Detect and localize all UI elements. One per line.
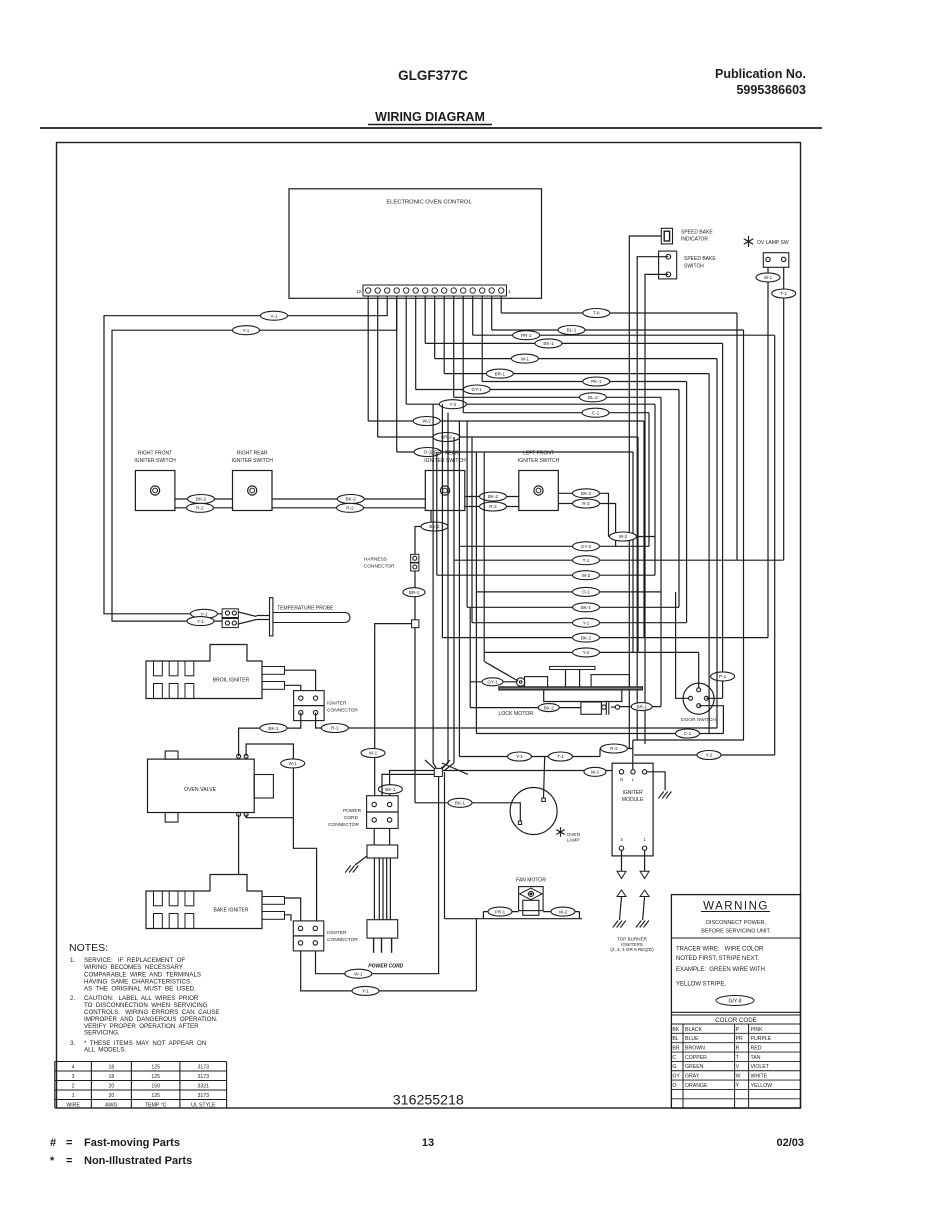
wire W-2 fan return xyxy=(543,907,579,916)
svg-text:W-1: W-1 xyxy=(369,751,378,756)
notes text block xyxy=(69,942,219,1054)
igniter module U2 box xyxy=(612,763,653,856)
svg-text:BK-1: BK-1 xyxy=(543,341,554,346)
svg-text:G/Y-8: G/Y-8 xyxy=(728,999,741,1005)
svg-text:GY-2: GY-2 xyxy=(581,544,592,549)
wire BK-1 horizontal run xyxy=(425,342,722,344)
oval label PR-1 xyxy=(513,331,540,340)
svg-text:EXAMPLE: GREEN WIRE WITH: EXAMPLE: GREEN WIRE WITH xyxy=(676,967,765,973)
oval label ladder BK-2 xyxy=(573,633,600,642)
svg-text:*: * xyxy=(50,1155,55,1167)
svg-text:COPPER: COPPER xyxy=(685,1055,707,1061)
svg-text:LEFT REAR: LEFT REAR xyxy=(431,451,459,457)
svg-text:#: # xyxy=(50,1137,56,1149)
wire BK power feed from junction xyxy=(390,771,435,796)
lock motor label xyxy=(498,711,533,717)
svg-text:C: C xyxy=(672,1055,676,1061)
svg-text:LOCK MOTOR: LOCK MOTOR xyxy=(498,711,533,717)
warning box xyxy=(671,895,800,1108)
wire W-1 horizontal run xyxy=(435,358,717,360)
svg-text:T-8: T-8 xyxy=(593,311,600,316)
wire speed bake indicator lead xyxy=(629,236,661,749)
wire W-2 stub xyxy=(609,532,656,541)
svg-text:Y-1: Y-1 xyxy=(197,619,204,624)
svg-text:BL: BL xyxy=(672,1036,678,1042)
wire PR-1 horizontal run xyxy=(473,334,775,336)
wire Y-1 J4 to power cord xyxy=(301,951,477,995)
oval label BR-1 xyxy=(486,369,513,378)
svg-text:02/03: 02/03 xyxy=(776,1137,804,1149)
svg-text:BK-2: BK-2 xyxy=(196,497,207,502)
wire Y-2 horizontal run xyxy=(406,403,655,405)
svg-text:BK: BK xyxy=(672,1027,679,1033)
junction node X1 xyxy=(425,760,450,777)
svg-text:AWG: AWG xyxy=(105,1103,117,1109)
left rear igniter switch S6 xyxy=(424,451,466,511)
wire W-1 oven lamp switch left leg xyxy=(756,267,780,637)
lock motor cam xyxy=(517,678,525,686)
part number xyxy=(393,1093,464,1109)
svg-text:3.: 3. xyxy=(70,1040,75,1047)
power cord connector J5 xyxy=(328,796,398,829)
svg-text:W: W xyxy=(736,1074,741,1080)
svg-text:316255218: 316255218 xyxy=(393,1093,464,1109)
svg-text:Y-1: Y-1 xyxy=(243,328,250,333)
svg-text:CONNECTOR: CONNECTOR xyxy=(328,822,359,828)
wire R-2 LF out xyxy=(558,499,615,546)
svg-text:BK-2: BK-2 xyxy=(346,497,357,502)
svg-text:125: 125 xyxy=(151,1093,160,1099)
title model number xyxy=(398,68,468,83)
svg-text:13: 13 xyxy=(422,1137,434,1149)
wire fan base left post xyxy=(482,912,484,919)
svg-text:BROWN: BROWN xyxy=(685,1046,705,1052)
wire ladder O-1 run xyxy=(476,591,661,593)
svg-text:UL STYLE: UL STYLE xyxy=(191,1103,216,1109)
wire ladder Y-2 run xyxy=(484,651,699,653)
svg-text:N: N xyxy=(620,777,623,782)
oval label T-1 lamp xyxy=(549,752,573,761)
oval label BR-1 harness xyxy=(403,588,425,597)
wire junction down to W-1 line xyxy=(438,777,440,974)
junction node square xyxy=(412,620,419,628)
svg-text:NOTES:: NOTES: xyxy=(69,942,108,954)
svg-text:4: 4 xyxy=(72,1065,75,1071)
svg-text:TRACER WIRE: WIRE COLOR: TRACER WIRE: WIRE COLOR xyxy=(676,947,764,953)
svg-text:W-1: W-1 xyxy=(289,761,298,766)
EOC connector strip P1 pins 1-15 xyxy=(356,285,511,296)
svg-text:CONTROLS. WIRING ERRORS CA: CONTROLS. WIRING ERRORS CAN CAUSE xyxy=(84,1009,219,1016)
svg-text:W-1: W-1 xyxy=(521,356,530,361)
svg-text:ALL MODELS.: ALL MODELS. xyxy=(84,1047,126,1054)
wire C-1 horizontal run xyxy=(463,412,649,414)
svg-text:GY-1: GY-1 xyxy=(487,680,498,685)
svg-text:T-1: T-1 xyxy=(583,558,590,563)
svg-text:18: 18 xyxy=(109,1074,115,1080)
svg-text:O-1: O-1 xyxy=(582,590,590,595)
svg-text:OVEN VALVE: OVEN VALVE xyxy=(184,787,217,793)
wire oven valve bottom right staircase xyxy=(246,814,293,817)
svg-text:W-2: W-2 xyxy=(559,909,568,914)
wire trunk Y-2 down xyxy=(654,404,656,575)
svg-text:BL-1: BL-1 xyxy=(567,328,577,333)
lock motor base plate xyxy=(499,687,643,690)
svg-text:3173: 3173 xyxy=(197,1093,209,1099)
svg-text:18: 18 xyxy=(109,1065,115,1071)
right rear igniter switch S5 xyxy=(232,451,274,511)
wire BK-2 RR to LR xyxy=(272,495,425,504)
svg-text:HARNESS: HARNESS xyxy=(364,557,387,563)
wire trunk P-1 down to door switch xyxy=(706,343,722,698)
svg-text:IGNITER: IGNITER xyxy=(622,790,643,796)
svg-text:POWER: POWER xyxy=(343,808,362,814)
wire module output 1 xyxy=(640,850,649,878)
svg-text:BK-2: BK-2 xyxy=(429,524,440,529)
svg-text:R-2: R-2 xyxy=(196,506,204,511)
svg-text:W-2: W-2 xyxy=(423,419,432,424)
svg-text:O: O xyxy=(672,1083,676,1089)
right front igniter switch S4 xyxy=(134,451,176,511)
svg-text:CONNECTOR: CONNECTOR xyxy=(364,564,395,570)
oval label BK-1 lamp xyxy=(448,798,472,807)
svg-text:BR-1: BR-1 xyxy=(409,590,420,595)
svg-text:CORD: CORD xyxy=(344,815,359,821)
wire broil prong lower to J3 xyxy=(285,685,301,690)
wires power connector to strain relief xyxy=(374,828,389,845)
wire BR-1 latch to trunk xyxy=(620,703,661,711)
svg-text:CAUTION: LABEL ALL WIRES: CAUTION: LABEL ALL WIRES PRIOR xyxy=(84,995,199,1002)
svg-text:BK-1: BK-1 xyxy=(385,787,396,792)
wire BL-2 horizontal run xyxy=(454,396,661,398)
wire fan base to Y-1 vertical xyxy=(475,919,477,991)
svg-text:OV LAMP SW: OV LAMP SW xyxy=(757,240,789,246)
wire speed bake switch lead 2 xyxy=(645,274,668,744)
wire BK-2 LR bottom to harness connector xyxy=(415,511,448,555)
wire fan base right post xyxy=(578,912,580,919)
oval label BR-2 xyxy=(433,433,460,442)
svg-text:Y-2: Y-2 xyxy=(449,402,456,407)
power cord plug body xyxy=(367,920,398,938)
svg-text:AS THE ORIGINAL MUST BE U: AS THE ORIGINAL MUST BE USED. xyxy=(84,986,196,993)
svg-text:ELECTRONIC OVEN CONTROL: ELECTRONIC OVEN CONTROL xyxy=(386,200,472,206)
wires ladder staircase verticals xyxy=(437,404,484,763)
svg-text:WIRING BECOMES NECESSARY: WIRING BECOMES NECESSARY xyxy=(84,964,183,971)
footer page number xyxy=(422,1137,434,1149)
wire T-1 oven lamp switch right leg xyxy=(772,267,796,560)
footer fast-moving parts xyxy=(50,1137,180,1149)
oval label BL-2 xyxy=(579,393,606,402)
wire broil prong upper to J3 xyxy=(285,670,316,690)
svg-text:PINK: PINK xyxy=(751,1027,764,1033)
svg-text:PURPLE: PURPLE xyxy=(751,1036,772,1042)
svg-text:V-1: V-1 xyxy=(201,612,208,617)
wire lamp left lead xyxy=(415,803,520,821)
svg-text:Y-2: Y-2 xyxy=(706,753,713,758)
wire trunk O-1 down xyxy=(632,452,634,652)
wire BR-1 horizontal run xyxy=(444,373,709,375)
wire BK-2 LF out xyxy=(558,489,608,537)
svg-text:RIGHT REAR: RIGHT REAR xyxy=(237,451,268,457)
svg-text:R-2: R-2 xyxy=(610,746,618,751)
wire ladder W-2 run xyxy=(437,574,655,576)
svg-text:BLACK: BLACK xyxy=(685,1027,703,1033)
oval label W-1 xyxy=(511,354,538,363)
power cord prongs xyxy=(374,938,392,953)
footer non-illustrated parts xyxy=(50,1155,192,1167)
wire ladder T-1 run xyxy=(454,559,784,561)
svg-text:BK-2: BK-2 xyxy=(544,705,555,710)
svg-text:Y-1: Y-1 xyxy=(583,620,590,625)
wire trunk W-2 down xyxy=(643,421,645,638)
temperature probe body xyxy=(238,598,350,636)
svg-text:FAN MOTOR: FAN MOTOR xyxy=(516,878,546,884)
wire speed bake switch lead 1 xyxy=(637,257,668,740)
electronic oven control U1 box xyxy=(289,189,542,298)
svg-text:W-1: W-1 xyxy=(764,275,773,280)
wire trunk BR-2 down xyxy=(637,437,639,652)
svg-text:DISCONNECT POWER,: DISCONNECT POWER, xyxy=(706,920,767,926)
svg-text:P: P xyxy=(736,1027,740,1033)
svg-text:NOTED FIRST, STRIPE NEXT.: NOTED FIRST, STRIPE NEXT. xyxy=(676,956,759,962)
svg-text:Publication No.: Publication No. xyxy=(715,67,806,81)
wire trunk C-1 down xyxy=(648,413,650,547)
wire R-2 LR to LF xyxy=(465,502,519,511)
wire W-1 J4 to trunk xyxy=(316,951,440,978)
oval label ladder W-2 xyxy=(573,571,600,580)
wire bake prong lower stub xyxy=(285,915,292,921)
wire harness to junction node xyxy=(414,571,416,588)
oval label V-1 upper xyxy=(261,311,288,320)
svg-text:TO DISCONNECTION WHEN SERVI: TO DISCONNECTION WHEN SERVICING xyxy=(84,1002,208,1009)
svg-text:POWER CORD: POWER CORD xyxy=(368,963,403,969)
svg-text:BL-2: BL-2 xyxy=(588,395,598,400)
svg-text:BAKE IGNITER: BAKE IGNITER xyxy=(213,908,248,914)
wire door top pin xyxy=(698,652,700,687)
svg-text:BROIL IGNITER: BROIL IGNITER xyxy=(213,678,250,684)
svg-text:COLOR CODE: COLOR CODE xyxy=(715,1017,757,1024)
wire door bottom pin to C-1 xyxy=(699,706,724,734)
svg-text:W-1: W-1 xyxy=(354,971,363,976)
wire BR-2 horizontal run xyxy=(378,436,638,438)
svg-text:SPEED BAKE: SPEED BAKE xyxy=(684,256,716,262)
wire center trunk to junction A xyxy=(433,404,436,768)
oval label BK-1 xyxy=(535,339,562,348)
wire Y-2 run xyxy=(634,751,775,760)
svg-text:=: = xyxy=(66,1137,72,1149)
svg-text:1.: 1. xyxy=(70,957,75,964)
oval label GY-1 xyxy=(463,385,490,394)
oval label Y-1 lower xyxy=(187,617,214,626)
svg-text:Y: Y xyxy=(736,1083,740,1089)
wiring diagram title xyxy=(368,110,492,125)
wire module ground right xyxy=(647,772,672,799)
igniter connector J3 broil xyxy=(294,691,359,721)
svg-text:CONNECTOR: CONNECTOR xyxy=(327,937,358,943)
svg-text:V: V xyxy=(736,1064,740,1070)
svg-text:MODULE: MODULE xyxy=(622,797,644,803)
svg-text:SWITCH: SWITCH xyxy=(684,264,704,270)
svg-text:WARNING: WARNING xyxy=(703,901,769,913)
color code table xyxy=(671,1024,800,1108)
speed bake switch S2 xyxy=(659,251,717,279)
svg-text:R-2: R-2 xyxy=(346,506,354,511)
oval label W-2 xyxy=(413,417,440,426)
svg-text:5995386603: 5995386603 xyxy=(736,83,806,97)
svg-text:BR-1: BR-1 xyxy=(636,704,647,709)
svg-text:T-1: T-1 xyxy=(780,291,787,296)
svg-text:W-1: W-1 xyxy=(591,770,600,775)
oval label ladder Y-1 xyxy=(573,618,600,627)
svg-text:2.: 2. xyxy=(70,995,75,1002)
wire trunk BL-2 down xyxy=(660,397,662,706)
oval label Y-2 xyxy=(439,400,466,409)
oval label W-1 power feed xyxy=(361,749,385,758)
wire C-line left vertical xyxy=(475,592,477,734)
wire oven valve top right via W-1 xyxy=(246,744,317,921)
svg-text:BLUE: BLUE xyxy=(685,1036,699,1042)
svg-text:BEFORE SERVICING UNIT.: BEFORE SERVICING UNIT. xyxy=(701,929,771,935)
wire BL-1 horizontal run xyxy=(492,329,744,331)
svg-text:IMPROPER AND DANGEROUS OPER: IMPROPER AND DANGEROUS OPERATION. xyxy=(84,1016,218,1023)
svg-text:GY: GY xyxy=(672,1074,680,1080)
svg-text:LEFT FRONT: LEFT FRONT xyxy=(523,451,554,457)
wire trunk PK-1 down xyxy=(686,382,688,623)
svg-text:IGNITERS: IGNITERS xyxy=(621,942,643,947)
footer date xyxy=(776,1137,804,1149)
svg-text:1: 1 xyxy=(72,1093,75,1099)
top burner igniter lead 1 xyxy=(636,890,649,928)
wire trunk BR-1 down xyxy=(708,374,710,734)
svg-text:CONNECTOR: CONNECTOR xyxy=(327,708,358,714)
wire V-1 net pin13 to probe xyxy=(104,296,387,614)
power cord label xyxy=(368,963,403,969)
oven valve V1 xyxy=(148,751,274,822)
wire W-2 horizontal run xyxy=(368,420,644,422)
svg-text:DOOR SWITCH: DOOR SWITCH xyxy=(681,717,716,723)
svg-text:IGNITER SWITCH: IGNITER SWITCH xyxy=(518,458,560,464)
fan motor M2 xyxy=(516,878,546,916)
oval label T-8 xyxy=(583,309,610,318)
svg-text:Non-Illustrated Parts: Non-Illustrated Parts xyxy=(84,1155,192,1167)
wire second junction left branch xyxy=(382,774,434,795)
lock motor gear box xyxy=(591,675,629,688)
wire Y-1 net pin12 to probe xyxy=(112,296,397,621)
svg-text:OVEN: OVEN xyxy=(567,832,581,838)
svg-text:SERVICE: IF REPLACEMENT OF: SERVICE: IF REPLACEMENT OF xyxy=(84,957,185,964)
oven lamp switch S3 xyxy=(744,236,789,267)
svg-text:COMPARABLE WIRE AND TERMINA: COMPARABLE WIRE AND TERMINALS xyxy=(84,972,201,979)
svg-text:PR: PR xyxy=(736,1036,743,1042)
svg-text:TOP BURNER: TOP BURNER xyxy=(617,937,648,942)
wire fan base xyxy=(445,918,583,920)
svg-text:HAVING SAME CHARACTERISTICS: HAVING SAME CHARACTERISTICS xyxy=(84,979,190,986)
oval label V-1 lower xyxy=(191,609,218,618)
wire GY-1 lock motor xyxy=(470,678,517,686)
left front igniter switch S7 xyxy=(518,451,560,511)
wire PK-1 horizontal run xyxy=(482,381,686,383)
svg-text:WHITE: WHITE xyxy=(751,1074,768,1080)
wire trunk W-1 down xyxy=(716,359,718,728)
svg-text:RED: RED xyxy=(751,1046,762,1052)
svg-text:20: 20 xyxy=(109,1084,115,1090)
oval label C-1 xyxy=(582,408,609,417)
oval label O-1 xyxy=(414,448,441,457)
svg-text:IGNITER SWITCH: IGNITER SWITCH xyxy=(134,458,176,464)
svg-text:150: 150 xyxy=(151,1084,160,1090)
power cord strain relief xyxy=(367,845,398,858)
oval label ladder BK-1 xyxy=(573,603,600,612)
svg-text:IGNITER: IGNITER xyxy=(327,930,347,936)
harness connector J2 xyxy=(364,554,419,571)
svg-text:BR: BR xyxy=(672,1046,679,1052)
wire lock diagonal xyxy=(485,662,518,681)
svg-text:R: R xyxy=(736,1046,740,1052)
svg-text:GRAY: GRAY xyxy=(685,1074,700,1080)
wire T-8 horizontal run xyxy=(501,312,737,314)
svg-text:INDICATOR: INDICATOR xyxy=(681,237,708,243)
svg-text:2: 2 xyxy=(72,1084,75,1090)
svg-text:3: 3 xyxy=(72,1074,75,1080)
wire R-2 RR to LR xyxy=(272,503,425,512)
svg-text:3173: 3173 xyxy=(197,1065,209,1071)
svg-text:T-1: T-1 xyxy=(557,754,564,759)
bake igniter E2 xyxy=(146,875,285,929)
latch switch S8 xyxy=(581,701,620,715)
wire lamp top lead xyxy=(544,757,545,799)
svg-text:GY-1: GY-1 xyxy=(472,387,483,392)
wire BK-2 LR to LF xyxy=(465,492,519,501)
svg-text:3321: 3321 xyxy=(197,1084,209,1090)
wire module L drop xyxy=(632,740,634,769)
svg-text:ORANGE: ORANGE xyxy=(685,1083,708,1089)
wire R-1 J3 to right xyxy=(316,713,717,733)
svg-text:TEMPERATURE PROBE: TEMPERATURE PROBE xyxy=(277,606,334,612)
wire R-2 module L feed xyxy=(600,744,633,753)
svg-text:R-2: R-2 xyxy=(582,501,590,506)
svg-text:BK-1: BK-1 xyxy=(455,801,466,806)
oval label PK-1 xyxy=(583,377,610,386)
wire BK-2 RF to RR xyxy=(175,495,233,504)
svg-text:R-1: R-1 xyxy=(331,726,339,731)
wire door left pin xyxy=(676,592,689,698)
oval label ladder GY-2 xyxy=(573,542,600,551)
wires EOC pin verticals xyxy=(368,296,501,452)
top burner igniters label xyxy=(610,937,654,953)
igniter connector J4 bake xyxy=(293,921,358,951)
svg-text:125: 125 xyxy=(151,1065,160,1071)
wire center trunk to junction B xyxy=(441,413,454,770)
oval label BK-1 power feed xyxy=(378,785,402,794)
wire PR-1 fan feed xyxy=(483,907,518,916)
wire lamp feed line xyxy=(459,749,600,757)
svg-text:BK-2: BK-2 xyxy=(581,635,592,640)
svg-text:IGNITER: IGNITER xyxy=(327,701,347,707)
lock motor bracket xyxy=(550,666,595,687)
wire trunk BL-1 down xyxy=(633,330,744,740)
oval label Y-1 upper xyxy=(233,326,260,335)
ground symbol power cord xyxy=(345,856,367,873)
wire O-1 horizontal run xyxy=(397,451,633,453)
svg-text:BK-1: BK-1 xyxy=(581,605,592,610)
svg-text:G: G xyxy=(672,1064,676,1070)
svg-text:125: 125 xyxy=(151,1074,160,1080)
svg-text:=: = xyxy=(66,1155,72,1167)
wire BR-1 to junction square xyxy=(414,597,416,620)
wire bake prong upper to J4 xyxy=(285,898,301,921)
broil igniter E1 xyxy=(146,645,285,699)
svg-text:20: 20 xyxy=(109,1093,115,1099)
svg-text:RIGHT FRONT: RIGHT FRONT xyxy=(138,451,172,457)
